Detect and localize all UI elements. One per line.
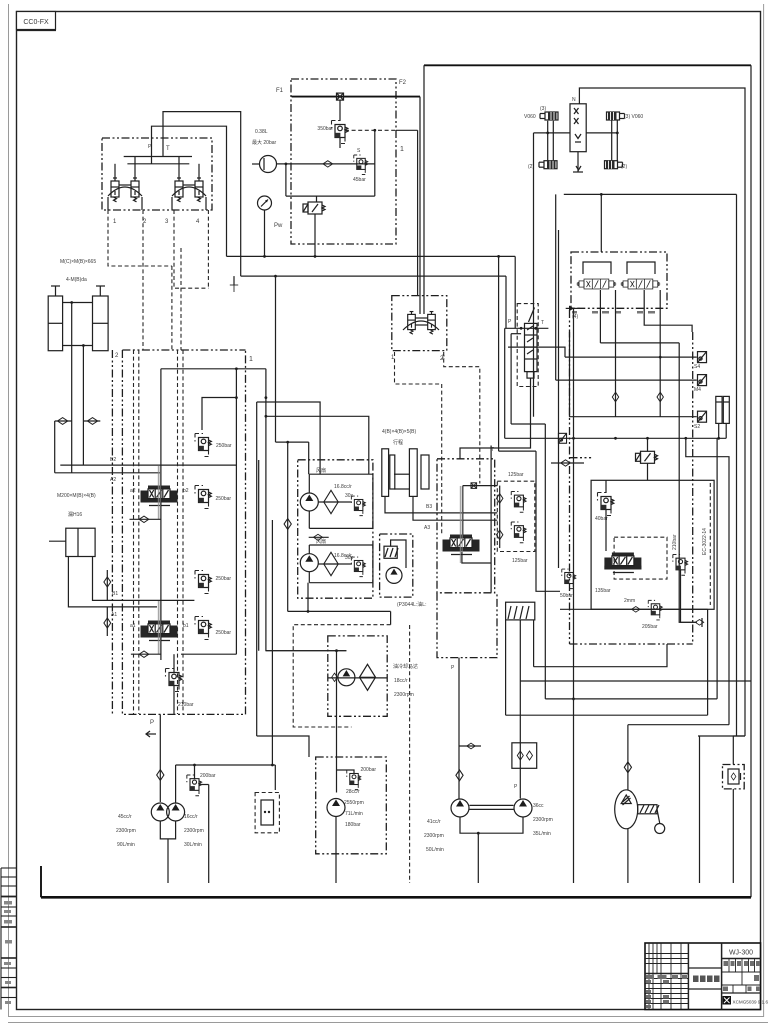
svg-text:18cc/r: 18cc/r — [394, 678, 408, 684]
title block — [645, 943, 768, 1010]
wire: gallery top — [161, 368, 266, 370]
svg-text:T: T — [491, 447, 494, 453]
svg-text:2300rpm: 2300rpm — [394, 692, 414, 698]
tank tee under joystick lines — [230, 285, 238, 292]
fan pump relief 200bar — [347, 770, 361, 790]
wire: cluster left drop — [533, 133, 535, 417]
check before motor — [332, 673, 338, 681]
svg-text:(2): (2) — [621, 164, 627, 170]
svg-text:180bar: 180bar — [345, 822, 361, 828]
wire: stack bottom drop — [460, 378, 531, 459]
svg-text:4-M(B)da: 4-M(B)da — [66, 277, 87, 283]
wire: check line under spool2 — [130, 518, 161, 520]
wire: travel feed top with orifice — [463, 485, 498, 487]
wire: swing work line B3 — [385, 496, 497, 513]
hammer spool valve — [604, 553, 641, 573]
return filter assembly — [506, 602, 535, 620]
swing cylinder 2 — [409, 449, 429, 497]
svg-text:V060: V060 — [524, 114, 536, 120]
svg-text:50bar: 50bar — [560, 593, 573, 599]
wire: pump1 drains — [160, 821, 175, 839]
svg-text:b2: b2 — [183, 488, 189, 494]
pilot lines inside manifold (dashed) — [133, 350, 135, 714]
manifold boundary outer — [111, 350, 113, 714]
solenoid valve right — [621, 279, 659, 289]
wire: aux relief drop — [681, 570, 697, 622]
wire: gauge line down — [264, 210, 266, 256]
wire: long return line A — [257, 402, 320, 474]
boom cylinder right — [93, 286, 109, 351]
spool valve section a1/b1 (stick) — [141, 621, 178, 641]
crossover relief box — [497, 481, 535, 551]
svg-text:M200×M(B)×4(B): M200×M(B)×4(B) — [57, 493, 96, 499]
svg-text:2550rpm: 2550rpm — [344, 800, 364, 806]
swing cylinder 1 — [382, 449, 395, 497]
svg-text:90L/min: 90L/min — [117, 842, 135, 848]
svg-text:F1: F1 — [276, 88, 284, 94]
wire: line from N block top — [579, 88, 745, 736]
wire: inter-loop link with check — [309, 536, 329, 538]
wire: manifold bottom 609 — [560, 608, 708, 610]
coupler M1 top-left — [540, 112, 558, 120]
svg-text:油冷却马达: 油冷却马达 — [393, 663, 418, 670]
svg-text:B2: B2 — [110, 457, 116, 463]
wire: cooler feed — [266, 650, 347, 652]
wire: elbow down right — [686, 438, 729, 724]
wire: gear pump suction — [627, 725, 629, 790]
overload check A1 — [106, 607, 108, 636]
svg-text:N: N — [572, 97, 576, 103]
port relief valve 250bar #2 — [195, 486, 211, 509]
wire: return line y667 — [534, 644, 667, 667]
svg-text:M(C)×M(B)×665: M(C)×M(B)×665 — [60, 259, 96, 265]
suction strainer diamond — [157, 770, 164, 781]
wire: check line under spool1 — [131, 653, 161, 655]
wire: relief drain bus — [181, 653, 236, 655]
svg-text:2300rpm: 2300rpm — [424, 833, 444, 839]
hammer valve dashed box — [614, 537, 667, 579]
svg-text:28cc/r: 28cc/r — [346, 789, 360, 795]
svg-text:135bar: 135bar — [595, 588, 611, 594]
pilot drain dashed in manifold — [709, 483, 711, 605]
wire: pilot line from joystick to upper right — [163, 112, 241, 277]
svg-text:36cc: 36cc — [533, 803, 544, 809]
wire: valve internal loops — [583, 262, 611, 274]
svg-text:16.8cc/r: 16.8cc/r — [334, 553, 352, 559]
wire: cross y397 — [235, 396, 238, 399]
port labels under pair box — [572, 311, 655, 314]
sheet code box top-left — [17, 12, 57, 31]
wire: swing work line A3 — [413, 496, 497, 520]
wire: valve drains to box bottom — [107, 197, 109, 210]
svg-text:1: 1 — [249, 356, 253, 363]
svg-text:EC-3022-14: EC-3022-14 — [702, 528, 708, 555]
wire: elbow to right — [644, 290, 692, 332]
svg-text:B1: B1 — [112, 591, 118, 597]
svg-text:2300rpm: 2300rpm — [184, 828, 204, 834]
shuttle S1 — [698, 352, 707, 363]
overload check B1 — [106, 570, 108, 600]
pilot filter dashed box — [255, 793, 279, 833]
svg-text:16cc/r: 16cc/r — [184, 814, 198, 820]
breather filter box — [723, 765, 745, 789]
pedal reducing valve L — [408, 312, 416, 335]
pump drive coupling — [638, 805, 657, 814]
wire: bundle y345 — [508, 347, 565, 357]
relief 40bar — [598, 493, 614, 516]
flow arrow on P riser — [146, 733, 156, 735]
wire: cross line between couplers — [534, 132, 571, 134]
check at 679 line end — [695, 620, 703, 626]
wire: fan module bottom bus — [288, 610, 391, 612]
wire: drop to pedal box — [417, 130, 419, 296]
wire: manifold line y416 — [570, 332, 697, 417]
shuttle on pilot bus — [558, 433, 566, 443]
wire: return elbow into fan pump module — [257, 736, 309, 757]
pilot hose from pedal 2 — [444, 352, 480, 484]
stick cylinder — [49, 528, 95, 556]
wire: cylinder feed B2 — [71, 303, 73, 473]
pilot reducing valve 3 — [175, 178, 183, 202]
wire: breather connections — [732, 736, 734, 765]
svg-text:最大 20bar: 最大 20bar — [252, 139, 277, 146]
wire: inner gallery right — [235, 369, 237, 654]
wire: solenoid drain down — [314, 214, 316, 256]
crossover relief 1 — [511, 492, 526, 513]
fan motor 1 — [300, 493, 318, 511]
wire: vertical 573 down — [573, 308, 575, 883]
wire: pilot line 2 — [152, 126, 227, 256]
svg-text:250bar: 250bar — [216, 443, 232, 449]
main pump A — [451, 799, 469, 817]
svg-text:125bar: 125bar — [512, 558, 528, 564]
svg-text:Pw: Pw — [274, 223, 283, 229]
svg-text:125bar: 125bar — [508, 472, 524, 478]
cooler filter — [360, 664, 376, 690]
svg-text:205bar: 205bar — [642, 624, 658, 630]
svg-text:350bar: 350bar — [317, 126, 333, 132]
svg-text:A3: A3 — [424, 525, 430, 531]
wire: coupler risers right — [611, 120, 613, 160]
svg-text:M4: M4 — [694, 387, 701, 393]
pilot hose 1 (dashed) — [108, 210, 172, 266]
svg-text:200bar: 200bar — [361, 767, 377, 773]
cooler motor — [338, 669, 355, 686]
center block N — [570, 104, 586, 152]
svg-text:0.38L: 0.38L — [255, 129, 268, 135]
wire: fan pump drain — [335, 817, 337, 884]
svg-text:210bar: 210bar — [672, 534, 678, 550]
wire: long vertical right 736 — [736, 194, 738, 736]
coupler M3 bottom-left — [539, 161, 557, 169]
joystick pilot valve box (left-hand pilot controller) — [102, 138, 212, 210]
pilot pump 0.38L — [260, 156, 277, 173]
svg-text:P: P — [150, 720, 154, 726]
relief 205bar — [648, 600, 662, 620]
wire: return line y724 — [628, 724, 729, 726]
relief 170bar loop1 — [351, 496, 365, 516]
wire: cylinder feed A2 — [82, 346, 84, 466]
travel module lower extension — [437, 593, 497, 658]
lube filter — [384, 546, 397, 558]
svg-text:S4: S4 — [694, 364, 700, 370]
wire: sense drop / solenoid top tee — [286, 195, 375, 197]
wire: long vertical right 751 F2 return — [750, 65, 752, 897]
svg-text:风扇: 风扇 — [316, 467, 326, 474]
wire: return line y698 — [545, 698, 717, 700]
wire: fan feed drop — [287, 442, 289, 611]
svg-text:41cc/r: 41cc/r — [427, 819, 441, 825]
solenoid shut-off valve — [303, 202, 325, 214]
wire: long return line B — [266, 416, 369, 474]
wire: motor2 mid line — [318, 563, 352, 565]
svg-text:风扇: 风扇 — [316, 538, 326, 545]
wire: pumpB suction w/ filter — [519, 620, 521, 799]
wire: main relief riser — [173, 654, 175, 672]
wire: F1 supply line — [292, 96, 420, 98]
coupler M2 top-right — [607, 112, 625, 120]
wire: line with check y463 — [551, 462, 584, 464]
wire: drop to solenoid pair box — [600, 194, 602, 252]
accumulator A1 — [716, 396, 722, 423]
solenoid valve left — [577, 279, 615, 289]
wire: manifold line y380 — [558, 230, 560, 568]
drain dashed down — [409, 625, 411, 883]
svg-text:50L/min: 50L/min — [426, 847, 444, 853]
filter F1 — [324, 490, 338, 513]
wire: stick cyl lines — [68, 557, 157, 607]
aux relief — [673, 555, 688, 576]
svg-text:2mm: 2mm — [624, 598, 635, 604]
pilot check left — [55, 420, 72, 422]
manifold boundary box — [122, 349, 245, 351]
wire: cluster bottom bus — [564, 193, 737, 195]
svg-text:35L/min: 35L/min — [533, 831, 551, 837]
joystick linkage arcs — [108, 187, 142, 196]
wire: long vertical 679 — [679, 343, 697, 622]
pressure gauge Pw — [258, 196, 272, 210]
wire: gear pump drain — [627, 829, 629, 883]
port relief valve 250bar #1 — [195, 434, 211, 457]
svg-text:2300rpm: 2300rpm — [533, 817, 553, 823]
wire: manifold line y357 — [555, 194, 557, 380]
main relief valve 210bar — [166, 669, 182, 692]
wire: pilot pump outlet — [277, 163, 375, 165]
fan pump — [327, 799, 345, 817]
svg-text:4(B)×4(B)×5(B): 4(B)×4(B)×5(B) — [382, 429, 417, 435]
svg-text:250bar: 250bar — [216, 576, 232, 582]
pilot hose vertical to main valve — [171, 266, 173, 350]
tandem pump 1a — [151, 803, 169, 821]
pedal reducing valve R — [428, 312, 436, 335]
svg-text:B3: B3 — [426, 504, 432, 510]
wire: accumulator drops — [718, 423, 720, 438]
svg-text:a2: a2 — [130, 488, 136, 494]
boom cylinder left — [48, 286, 62, 351]
wire: pilot tank line 1 — [227, 255, 516, 257]
wire: y424 elbow — [511, 423, 545, 425]
svg-text:A2: A2 — [110, 477, 116, 483]
pilot hose 3 (dashed) — [174, 210, 208, 288]
pilot hose 4 (dashed) — [207, 210, 209, 288]
wire: F2 line across top — [424, 64, 751, 66]
wire: right gallery drop — [266, 369, 347, 651]
wire: SV2 top/bottom — [647, 438, 649, 451]
wire: pilot tank line 2 — [241, 275, 506, 277]
stack pilot diagonal — [529, 308, 535, 323]
wire: pump coupling shaft — [470, 804, 514, 806]
pilot check right — [83, 420, 100, 422]
svg-text:漏H16: 漏H16 — [68, 511, 82, 518]
relief 200bar — [187, 775, 202, 796]
svg-text:行程: 行程 — [393, 439, 403, 446]
wire: stack side lines — [505, 327, 549, 329]
check valve on pilot line — [323, 161, 333, 167]
bypass valve 50bar — [562, 569, 576, 589]
return manifold block — [591, 480, 714, 609]
svg-text:(P3044L:油L:: (P3044L:油L: — [397, 601, 426, 608]
wire: pair box drops — [599, 290, 601, 343]
wire: coupler risers left — [547, 121, 549, 161]
wire: fan feed from pilot drain — [276, 441, 309, 443]
svg-text:a1: a1 — [130, 623, 136, 629]
svg-text:200bar: 200bar — [200, 773, 216, 779]
svg-text:WJ-300: WJ-300 — [729, 950, 753, 957]
fan motor 2 — [300, 554, 318, 572]
svg-text:30x: 30x — [345, 493, 354, 499]
svg-text:45bar: 45bar — [353, 177, 366, 183]
svg-text:(3) V060: (3) V060 — [624, 114, 643, 120]
pilot supply unit box P1 — [291, 79, 396, 244]
wire: below travel valve — [462, 552, 491, 563]
pilot reducing valve 2 — [131, 178, 139, 202]
port relief valve 250bar #4 — [195, 617, 211, 640]
svg-text:250bar: 250bar — [216, 496, 232, 502]
crossover relief 2 — [511, 522, 526, 543]
wire: swing cyl cross links — [394, 473, 409, 475]
orifice on F1 line — [337, 93, 344, 100]
wire: pilot accumulator bus y438 — [505, 437, 727, 439]
svg-text:71L/min: 71L/min — [345, 811, 363, 817]
wire: spool2 pilot caps — [157, 466, 159, 519]
wire: check column — [498, 256, 500, 451]
pilot reducing valve 1 — [111, 178, 119, 202]
wire: N block drain + tank tee — [577, 152, 579, 172]
lube motor — [386, 567, 402, 583]
wire: pump1b outlet — [176, 764, 276, 766]
main pump B — [514, 799, 532, 817]
svg-text:b1: b1 — [183, 623, 189, 629]
check on fan feed — [284, 519, 291, 530]
port relief valve 250bar #3 — [195, 571, 211, 594]
pilot hose 2 (dashed) — [142, 210, 144, 350]
wire: orifice to relief — [339, 100, 341, 121]
relief valve 45bar — [354, 155, 368, 175]
wire: lube loop — [391, 540, 406, 568]
filter F2 — [324, 552, 338, 575]
svg-text:1: 1 — [400, 146, 404, 153]
wire: relief drain — [339, 138, 341, 149]
fan motor 1 loop — [309, 474, 373, 528]
svg-text:(3): (3) — [540, 106, 546, 112]
accumulator A2 — [723, 396, 729, 423]
shuttle S2 — [698, 375, 707, 386]
relief valve 350bar — [332, 121, 348, 144]
wire: loop1 feed — [308, 442, 310, 474]
wire: h736 right segment — [698, 735, 745, 737]
tandem pump 1b — [167, 803, 185, 821]
wire: relief1 riser — [202, 398, 236, 431]
pilot hose from pedal 1 — [395, 352, 442, 535]
wire: drain down to fan circuit — [275, 276, 277, 442]
wire: F2 drop to pedal valve — [423, 65, 425, 314]
svg-text:16.8cc/r: 16.8cc/r — [334, 484, 352, 490]
wire: relief drain — [208, 785, 210, 884]
spool valve section a2/b2 (boom) — [141, 486, 178, 506]
solenoid valve SV2 — [636, 451, 658, 463]
svg-text:30L/min: 30L/min — [184, 842, 202, 848]
svg-text:CC0-FX: CC0-FX — [23, 19, 49, 26]
svg-text:S2: S2 — [694, 424, 700, 430]
svg-text:F2: F2 — [399, 80, 407, 86]
svg-text:250bar: 250bar — [216, 630, 232, 636]
wire: cooler mid line — [328, 677, 387, 679]
svg-text:A1: A1 — [111, 612, 117, 618]
wire: pump P riser — [159, 714, 161, 802]
wire: feed check line — [458, 658, 460, 799]
wire: joystick internal manifold — [124, 156, 192, 158]
wire: return line y681 — [520, 680, 751, 682]
svg-text:45cc/r: 45cc/r — [118, 814, 132, 820]
check valve on drop 2 — [657, 392, 663, 402]
svg-text:210bar: 210bar — [178, 702, 194, 708]
wire: down from pilot line to solenoid top — [285, 164, 287, 196]
hose coupling (4) — [566, 307, 580, 309]
wire: pump2 drain — [460, 818, 523, 834]
shuttle S3 — [698, 411, 707, 422]
wire: return line y715 — [506, 714, 708, 716]
check valve on drop — [612, 392, 618, 402]
svg-text:T: T — [541, 320, 544, 326]
wire: cylinder cross lines — [63, 302, 93, 304]
wire: y451 elbow — [499, 450, 536, 452]
svg-text:XCMG5039 9.1.6: XCMG5039 9.1.6 — [733, 1000, 768, 1005]
wire: inner gallery left — [160, 369, 162, 660]
svg-text:2300rpm: 2300rpm — [116, 828, 136, 834]
pilot reducing valve 4 — [195, 178, 203, 202]
fan module dashed return boundary — [293, 625, 390, 727]
travel spool valve — [443, 535, 480, 555]
wire: return drop 699 — [699, 736, 701, 883]
svg-text:T: T — [166, 146, 170, 152]
coupler M4 bottom-right — [605, 161, 623, 169]
wire: motor1 mid line — [318, 501, 352, 503]
pilot sense line (dashed) to stack — [345, 129, 396, 131]
revision strip left edge — [1, 868, 17, 1010]
fan motor 2 loop — [309, 545, 373, 583]
relief 170bar loop2 — [351, 557, 365, 577]
